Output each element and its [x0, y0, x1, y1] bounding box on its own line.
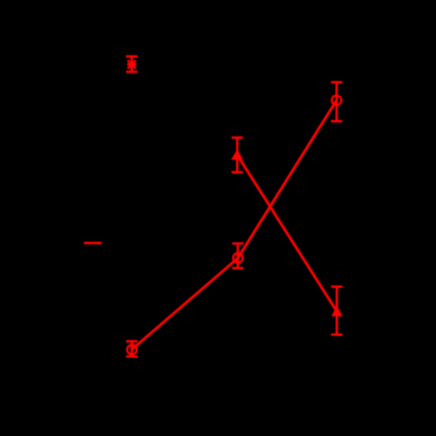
circle marker 3 [332, 96, 342, 106]
series 2 (triangles) line [237, 155, 337, 312]
error bar triangle point 2 [331, 287, 342, 335]
series 1 (circles) line [132, 100, 337, 349]
asterisk marker [127, 60, 136, 68]
legend line sample [84, 242, 102, 244]
circle marker 1 [127, 345, 137, 355]
error bar triangle point 1 [232, 138, 243, 173]
error bar for asterisk point [126, 56, 137, 71]
triangle marker 1 [231, 149, 243, 160]
triangle marker 2 [331, 306, 342, 316]
error bar circle point 1 [126, 341, 137, 356]
circle marker 2 [233, 253, 243, 263]
error bar circle point 2 [232, 244, 243, 269]
error bar circle point 3 [331, 82, 342, 121]
